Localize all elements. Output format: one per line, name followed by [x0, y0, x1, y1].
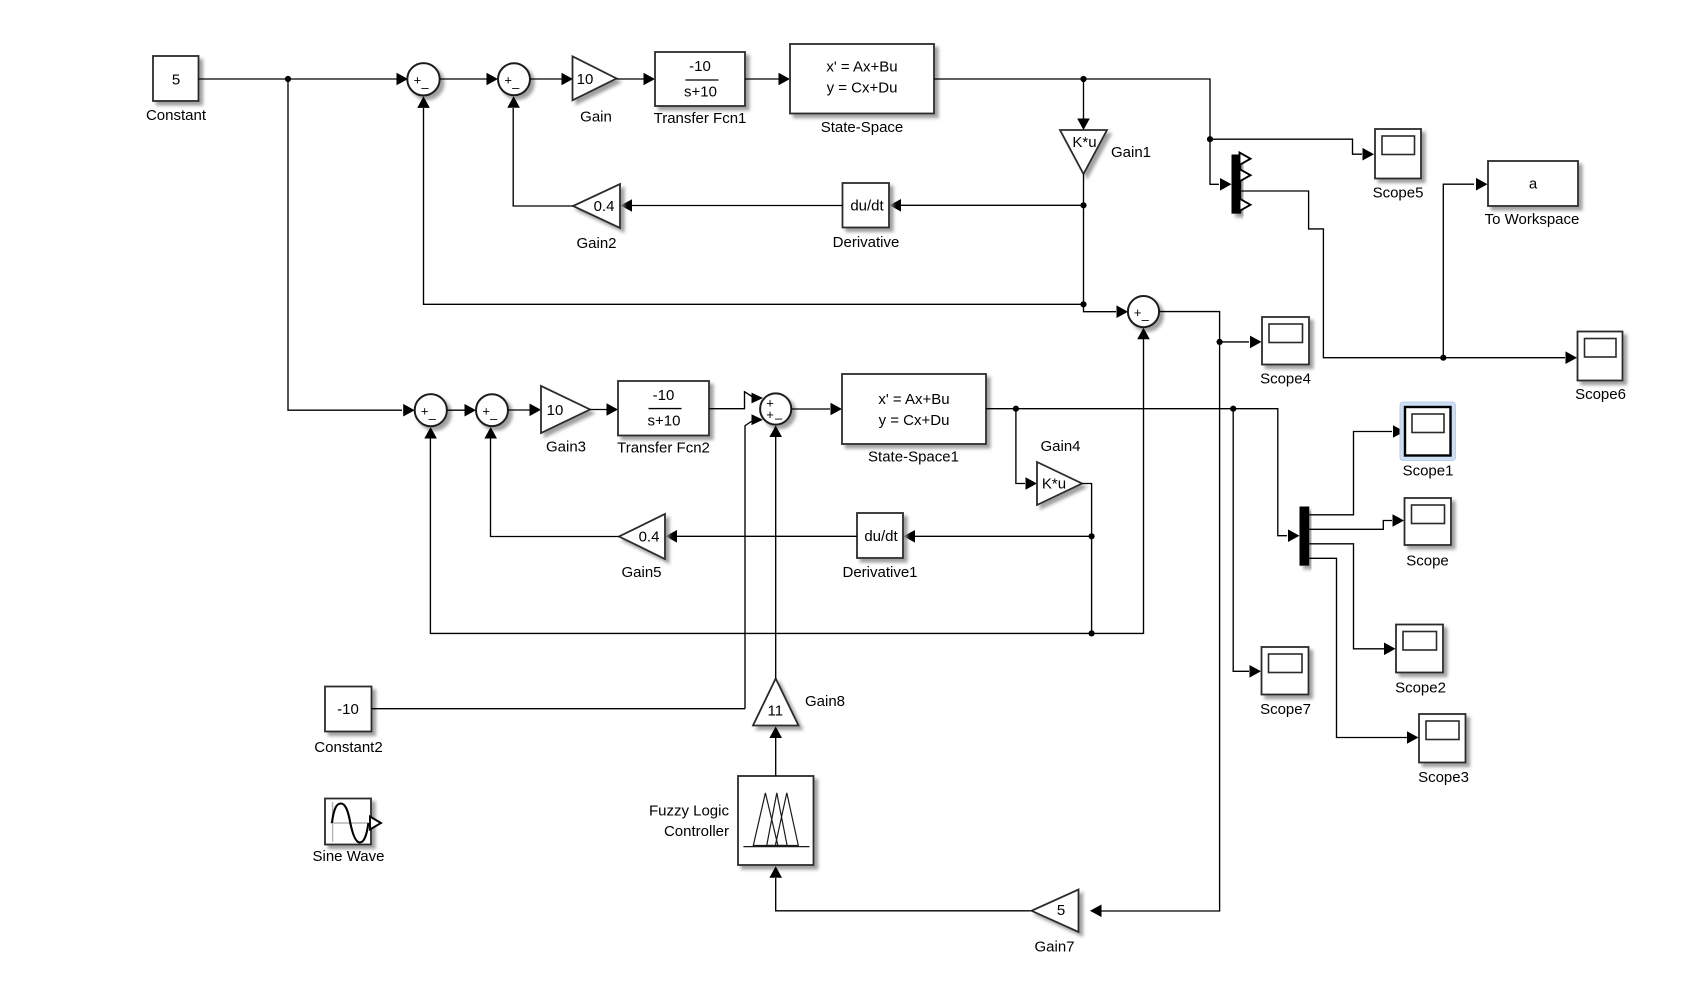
arrowhead into Scope7 — [1250, 665, 1262, 678]
wire Demux2 port2 to Scope — [1309, 521, 1392, 530]
wire Sum1 to Sum2 — [440, 78, 496, 80]
demux Demux1 (bar) — [1232, 155, 1241, 213]
svg-text:–: – — [512, 80, 520, 95]
svg-text:Gain2: Gain2 — [576, 235, 616, 252]
arrowhead into SumA — [1117, 305, 1129, 318]
svg-text:10: 10 — [577, 71, 594, 88]
svg-text:-10: -10 — [689, 58, 711, 75]
svg-text:Gain8: Gain8 — [805, 693, 845, 710]
svg-text:State-Space1: State-Space1 — [868, 449, 959, 466]
arrowhead into Scope1 — [1393, 425, 1405, 438]
sum Sum4a — [476, 394, 508, 426]
svg-text:0.4: 0.4 — [639, 528, 660, 545]
wire to Derivative input — [901, 204, 1084, 206]
arrowhead into Gain4 — [1026, 477, 1038, 490]
wire State-Space output to Demux1 input — [934, 79, 1219, 184]
arrowhead into Transfer Fcn1 — [644, 73, 656, 86]
wire Constant to Sum1 — [199, 78, 408, 80]
svg-text:–: – — [490, 411, 498, 426]
block State-Space1 — [842, 374, 986, 444]
svg-text:+: + — [766, 407, 774, 422]
block Derivative (du/dt) — [843, 183, 890, 228]
scope Scope7 — [1262, 647, 1309, 695]
arrowhead into Demux1 — [1220, 178, 1232, 191]
scope Scope2 — [1396, 625, 1443, 673]
wire branch to Scope5 — [1210, 139, 1362, 154]
scope Scope1 (selected) — [1400, 402, 1456, 461]
junction node branch to Scope5 — [1207, 136, 1213, 142]
block Fuzzy Logic Controller — [738, 776, 814, 865]
arrowhead into Gain1 (down) — [1077, 119, 1090, 131]
sum Sum1 — [407, 63, 439, 95]
arrowhead into Scope4 — [1250, 336, 1262, 349]
sum Sum2 — [498, 63, 530, 95]
wire Gain2 to Sum2 minus input — [513, 108, 573, 206]
svg-text:du/dt: du/dt — [864, 528, 898, 545]
svg-text:du/dt: du/dt — [850, 198, 884, 215]
svg-text:Constant2: Constant2 — [314, 739, 382, 756]
wire Gain3 to Transfer Fcn2 — [590, 409, 616, 411]
junction node Scope7 branch — [1230, 406, 1236, 412]
wire Gain5 to Sum4a minus input — [491, 438, 620, 537]
arrowhead into Scope2 — [1384, 643, 1396, 656]
arrowhead into Gain8 bottom — [769, 727, 782, 739]
arrowhead into State-Space — [779, 73, 791, 86]
gain Gain8 (11, pointing up) — [753, 679, 799, 726]
svg-text:+: + — [421, 404, 429, 419]
gain Gain3 (10) — [541, 386, 590, 433]
svg-text:Constant: Constant — [146, 107, 207, 124]
unconnected output port 1 of Demux1 — [1240, 153, 1251, 165]
svg-text:-10: -10 — [337, 701, 359, 718]
wire branch to Scope4 — [1220, 341, 1249, 343]
arrowhead into Sum1 — [397, 73, 409, 86]
wire Constant branch down to Sum3a — [288, 79, 402, 410]
arrowhead into Gain2 (left) — [621, 199, 633, 212]
svg-text:–: – — [421, 80, 429, 95]
arrowhead into Sum1 bottom — [417, 96, 430, 108]
gain Gain1 (K*u, pointing down) — [1060, 130, 1107, 174]
arrowhead into Gain5 (left) — [666, 530, 678, 543]
gain Gain (10) — [573, 56, 617, 100]
arrowhead into Demux2 — [1288, 529, 1300, 542]
svg-text:5: 5 — [1057, 902, 1065, 919]
wire Demux2 port4 to Scope3 — [1309, 558, 1407, 737]
svg-text:Scope3: Scope3 — [1418, 769, 1469, 786]
arrowhead into Scope6 — [1566, 351, 1578, 364]
wire branch down to Scope7 — [1233, 409, 1249, 672]
sum Sum5 (+ + -) — [760, 393, 791, 424]
arrowhead into Sum5 port2 — [752, 414, 764, 425]
svg-text:State-Space: State-Space — [821, 119, 904, 136]
wire to Derivative1 input — [915, 535, 1092, 537]
block Derivative1 (du/dt) — [857, 513, 903, 558]
junction node Derivative1 branch — [1089, 533, 1095, 539]
wire Demux1 output 3 to Scope6 line — [1241, 191, 1565, 358]
wire branch down into Gain1 — [1083, 79, 1085, 119]
wire SumA output into Gain7 (arrow) — [1090, 905, 1102, 918]
svg-text:–: – — [1142, 312, 1150, 327]
wire Derivative to Gain2 — [632, 205, 843, 207]
arrowhead into Transfer Fcn2 — [607, 403, 619, 416]
wire Demux2 port3 to Scope2 — [1309, 544, 1384, 649]
block To Workspace (a) — [1488, 161, 1578, 206]
svg-text:y = Cx+Du: y = Cx+Du — [879, 412, 950, 429]
wire feedback to Sum1 minus input — [424, 108, 1084, 304]
arrowhead into Sum4a bottom — [484, 427, 497, 439]
wire Sum2 to Gain — [530, 78, 571, 80]
junction node Scope4 branch — [1217, 339, 1223, 345]
svg-text:-10: -10 — [653, 387, 675, 404]
demux Demux2 (bar) — [1300, 507, 1309, 565]
wire Derivative1 to Gain5 — [677, 535, 857, 537]
svg-text:Fuzzy Logic: Fuzzy Logic — [649, 803, 730, 820]
arrowhead into Scope5 — [1363, 148, 1375, 161]
svg-text:0.4: 0.4 — [594, 198, 615, 215]
junction node Gain4 branch — [1013, 406, 1019, 412]
junction node Derivative branch — [1080, 202, 1086, 208]
block Constant2 (-10) — [325, 687, 372, 732]
wire feedback into SumA — [1084, 304, 1117, 311]
wire Sum4a to Gain3 — [508, 409, 539, 411]
wire SumA output — [1091, 312, 1220, 911]
arrowhead into SumA bottom — [1137, 328, 1150, 340]
sum SumA — [1128, 296, 1159, 327]
wire Constant2 output — [372, 708, 746, 710]
wire branch up to To Workspace — [1443, 184, 1474, 358]
arrowhead into Derivative (left) — [890, 199, 902, 212]
scope Scope — [1405, 498, 1452, 545]
gain Gain7 (5, pointing left) — [1032, 890, 1079, 933]
arrowhead into Scope — [1393, 514, 1405, 527]
wire Sum3a to Sum4a — [447, 409, 474, 411]
wire Constant2 riser to Sum5 port2 — [745, 421, 752, 709]
wire Sum5 to State-Space1 — [791, 408, 830, 410]
svg-text:–: – — [775, 411, 783, 426]
svg-text:Derivative: Derivative — [833, 234, 900, 251]
svg-text:Scope7: Scope7 — [1260, 701, 1311, 718]
svg-text:Gain7: Gain7 — [1034, 938, 1074, 955]
gain Gain5 (0.4, pointing left) — [619, 514, 665, 559]
svg-text:a: a — [1529, 176, 1538, 193]
arrowhead into Sum3a bottom — [424, 427, 437, 439]
wire Gain4 output down — [1082, 484, 1092, 634]
svg-text:Gain3: Gain3 — [546, 438, 586, 455]
svg-text:Scope: Scope — [1406, 552, 1449, 569]
svg-text:s+10: s+10 — [684, 84, 717, 101]
wire branch down to Gain4 — [1016, 409, 1025, 484]
wire Fuzzy Logic Controller output to Gain8 — [775, 738, 777, 776]
svg-text:+: + — [504, 73, 512, 88]
svg-text:x' = Ax+Bu: x' = Ax+Bu — [878, 391, 949, 408]
arrowhead into Gain — [562, 73, 574, 86]
svg-text:Gain1: Gain1 — [1111, 144, 1151, 161]
svg-text:Transfer Fcn2: Transfer Fcn2 — [617, 440, 710, 457]
arrowhead into Sum3a — [403, 404, 415, 417]
wire Transfer Fcn1 to State-Space — [745, 78, 788, 80]
arrowhead into Sum2 — [487, 73, 499, 86]
arrowhead into Sum4a — [465, 404, 477, 417]
wire lower feedback line — [430, 438, 1091, 633]
gain Gain2 (0.4, pointing left) — [573, 184, 620, 228]
svg-text:Controller: Controller — [664, 823, 729, 840]
junction node above Gain1 — [1080, 76, 1086, 82]
unconnected output port of Sine Wave — [370, 817, 381, 830]
svg-text:K*u: K*u — [1072, 134, 1096, 151]
scope Scope6 — [1578, 332, 1623, 381]
unconnected output port 4 of Demux1 — [1240, 199, 1251, 211]
gain Gain4 (K*u) — [1037, 462, 1082, 505]
arrowhead into Derivative1 (left) — [904, 530, 916, 543]
svg-text:x' = Ax+Bu: x' = Ax+Bu — [826, 59, 897, 76]
svg-text:Scope5: Scope5 — [1373, 184, 1424, 201]
junction node lower feedback — [1089, 630, 1095, 636]
svg-text:K*u: K*u — [1042, 475, 1066, 492]
arrowhead into Scope3 — [1407, 731, 1419, 744]
svg-text:+: + — [482, 404, 490, 419]
block State-Space — [790, 44, 934, 114]
svg-text:Scope6: Scope6 — [1575, 386, 1626, 403]
svg-text:Gain4: Gain4 — [1040, 438, 1080, 455]
wire Gain to Transfer Fcn1 — [617, 78, 654, 80]
svg-text:–: – — [429, 411, 437, 426]
junction node feedback branch — [1080, 301, 1086, 307]
svg-text:y = Cx+Du: y = Cx+Du — [827, 80, 898, 97]
arrowhead into Sum5 bottom — [769, 426, 782, 438]
svg-text:Derivative1: Derivative1 — [842, 564, 917, 581]
scope Scope3 — [1419, 714, 1466, 763]
wire Gain7 to Fuzzy Logic Controller input — [776, 878, 1032, 911]
svg-text:Scope2: Scope2 — [1395, 679, 1446, 696]
block Constant (value 5) — [153, 56, 199, 101]
svg-text:Scope1: Scope1 — [1403, 463, 1454, 480]
svg-text:Transfer Fcn1: Transfer Fcn1 — [654, 110, 747, 127]
unconnected output port 2 of Demux1 — [1240, 169, 1251, 181]
wire Gain1 output down — [1083, 174, 1085, 304]
wire lower feedback to SumA minus — [1092, 339, 1144, 633]
arrowhead into Sum2 bottom — [507, 96, 520, 108]
wire Gain8 output to Sum5 bottom — [775, 437, 777, 679]
svg-text:Gain5: Gain5 — [621, 564, 661, 581]
svg-text:5: 5 — [172, 72, 180, 89]
scope Scope5 — [1375, 129, 1421, 179]
arrowhead into Fuzzy Logic Controller bottom — [769, 866, 782, 878]
svg-text:+: + — [1134, 305, 1142, 320]
scope Scope4 — [1262, 317, 1309, 365]
wire State-Space1 output to Demux2 — [986, 409, 1287, 536]
block Sine Wave — [325, 799, 371, 845]
svg-text:Sine Wave: Sine Wave — [313, 848, 385, 865]
wire Transfer Fcn2 to Sum5 port1 — [709, 392, 752, 409]
junction node To Workspace branch — [1440, 355, 1446, 361]
svg-text:10: 10 — [547, 402, 564, 419]
svg-text:+: + — [414, 73, 422, 88]
svg-text:To Workspace: To Workspace — [1485, 211, 1580, 228]
arrowhead into Gain3 — [530, 404, 542, 417]
arrowhead into To Workspace — [1476, 178, 1488, 191]
block Transfer Fcn2 — [618, 381, 709, 436]
block Transfer Fcn1 — [655, 52, 745, 106]
svg-text:Gain: Gain — [580, 108, 612, 125]
sum Sum3a — [415, 394, 447, 426]
arrowhead into State-Space1 — [831, 403, 843, 416]
svg-text:11: 11 — [768, 703, 784, 720]
arrowhead into Sum5 port1 — [752, 393, 764, 404]
wire Demux2 port1 to Scope1 — [1309, 432, 1392, 515]
svg-text:s+10: s+10 — [648, 413, 681, 430]
svg-text:Scope4: Scope4 — [1260, 371, 1311, 388]
junction node on Constant wire — [285, 76, 291, 82]
